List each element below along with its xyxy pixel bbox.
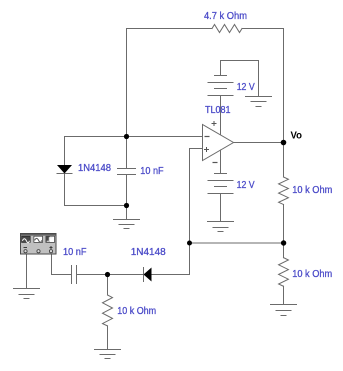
svg-text:10 nF: 10 nF <box>140 166 163 177</box>
svg-text:1N4148: 1N4148 <box>78 163 111 174</box>
svg-text:10 k Ohm: 10 k Ohm <box>292 185 332 196</box>
svg-text:4.7 k Ohm: 4.7 k Ohm <box>204 11 247 22</box>
svg-text:12 V: 12 V <box>237 82 255 93</box>
svg-text:1N4148: 1N4148 <box>131 247 166 258</box>
svg-text:10 k Ohm: 10 k Ohm <box>117 306 156 317</box>
svg-text:10 nF: 10 nF <box>63 247 87 258</box>
svg-text:Vo: Vo <box>291 131 303 142</box>
svg-text:TL081: TL081 <box>205 105 231 116</box>
svg-text:12 V: 12 V <box>237 180 255 191</box>
svg-text:10 k Ohm: 10 k Ohm <box>292 269 332 280</box>
